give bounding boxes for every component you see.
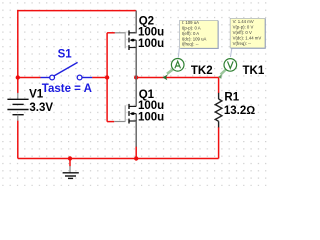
svg-text:100u: 100u bbox=[138, 100, 164, 112]
probe TK2 readout box bbox=[180, 20, 219, 48]
junction switch-battery node bbox=[16, 75, 20, 79]
current probe TK2 circle bbox=[171, 59, 184, 72]
probe TK2 readout box leader bbox=[178, 48, 179, 57]
Q2 drain lead up to rail bbox=[135, 11, 137, 34]
svg-text:I(eff): 0 A: I(eff): 0 A bbox=[182, 31, 199, 36]
svg-text:I(p-p): 0 A: I(p-p): 0 A bbox=[182, 26, 201, 31]
svg-text:13.2Ω: 13.2Ω bbox=[224, 105, 255, 117]
resistor R1 bbox=[215, 93, 222, 128]
wire R1 top lead from output rail bbox=[218, 78, 220, 94]
svg-text:Q2: Q2 bbox=[139, 15, 154, 27]
label S1 bbox=[58, 48, 73, 60]
wire output node rail to R1 bbox=[136, 77, 218, 79]
wire R1 bottom lead to bottom rail bbox=[218, 127, 220, 159]
svg-text:100u: 100u bbox=[138, 112, 164, 124]
voltage probe TK1 circle bbox=[224, 59, 237, 72]
value label Q2 100u bbox=[138, 27, 164, 39]
svg-text:Q1: Q1 bbox=[139, 89, 155, 101]
Q1 source lead down bbox=[135, 121, 137, 147]
current probe TK2 leader arrow bbox=[162, 69, 173, 80]
svg-text:TK2: TK2 bbox=[191, 65, 213, 77]
wire ground stub bbox=[69, 159, 71, 167]
junction Q1 source node bbox=[134, 156, 138, 160]
wire gate vertical bus bbox=[106, 33, 108, 122]
wire Q1 gate stub bbox=[107, 121, 114, 123]
battery V1 bbox=[7, 93, 28, 121]
svg-text:TK1: TK1 bbox=[243, 65, 265, 77]
probe TK1 readout box leader bbox=[230, 48, 231, 57]
value label 3.3V bbox=[29, 102, 53, 114]
label V1 bbox=[29, 88, 44, 100]
ground bbox=[63, 166, 79, 178]
svg-text:100u: 100u bbox=[138, 27, 164, 39]
svg-text:V(dc): 1.44 mV: V(dc): 1.44 mV bbox=[233, 36, 262, 41]
svg-text:V(freq): --: V(freq): -- bbox=[233, 41, 252, 46]
value label Q1 100u (2) bbox=[138, 112, 164, 124]
wire battery bottom to bottom rail bbox=[17, 120, 19, 158]
label Q1 bbox=[139, 89, 155, 101]
transistor Q2 (NMOS) bbox=[115, 30, 137, 50]
wire bottom rail bbox=[18, 158, 219, 160]
svg-text:R1: R1 bbox=[224, 91, 239, 103]
label R1 bbox=[224, 91, 239, 103]
svg-text:I(freq): --: I(freq): -- bbox=[182, 42, 199, 47]
label TK2 bbox=[191, 65, 213, 77]
value label Q1 100u bbox=[138, 100, 164, 112]
label TK1 bbox=[243, 65, 265, 77]
svg-text:I(dc): 109 uA: I(dc): 109 uA bbox=[182, 36, 207, 41]
switch S1 bbox=[41, 62, 93, 80]
wire top VCC rail bbox=[18, 10, 136, 12]
svg-text:V(eff): 0 V: V(eff): 0 V bbox=[233, 30, 252, 35]
junction output node bbox=[134, 75, 138, 79]
probe TK1 readout box bbox=[230, 18, 265, 48]
voltage probe TK1 leader arrow bbox=[218, 70, 226, 79]
svg-text:V(p-p): 0 V: V(p-p): 0 V bbox=[233, 24, 254, 29]
svg-text:100u: 100u bbox=[138, 38, 164, 50]
junction ground node bbox=[68, 156, 72, 160]
transistor Q1 (NMOS) bbox=[114, 104, 136, 124]
wire Q2 gate stub bbox=[107, 32, 115, 34]
value label Q2 100u (2) bbox=[138, 38, 164, 50]
junction gate node bbox=[105, 75, 109, 79]
label Q2 bbox=[139, 15, 154, 27]
wire left rail from top rail to battery bbox=[17, 10, 19, 93]
svg-text:Taste = A: Taste = A bbox=[42, 83, 92, 95]
wire Q1 source to bottom rail bbox=[135, 146, 137, 158]
svg-text:3.3V: 3.3V bbox=[29, 102, 53, 114]
svg-text:I: 109 uA: I: 109 uA bbox=[182, 20, 199, 25]
svg-text:V: 1.44 mV: V: 1.44 mV bbox=[233, 19, 254, 24]
wire Q2 source to Q1 drain bbox=[135, 48, 137, 107]
value label 13.2 ohm bbox=[224, 105, 255, 117]
wire switch left segment bbox=[18, 77, 41, 79]
wire switch right segment to gate node bbox=[92, 77, 107, 79]
label Taste = A bbox=[42, 83, 92, 95]
svg-text:S1: S1 bbox=[58, 48, 73, 60]
